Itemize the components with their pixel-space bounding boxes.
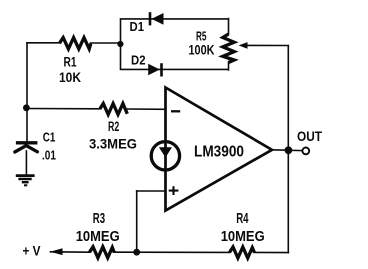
wire C1 lead [25,151,27,175]
svg-text:10MEG: 10MEG [76,229,120,245]
wire opamp output [272,149,302,152]
resistor R4 [230,247,255,258]
resistor R1 [60,38,91,49]
svg-text:.01: .01 [42,147,56,162]
ground [16,176,35,186]
svg-text:10MEG: 10MEG [221,229,265,245]
svg-text:R4: R4 [236,211,248,227]
potentiometer R5 wiper arrow [239,42,248,49]
OUT terminal [302,148,309,155]
wire R5 wiper horizontal [245,44,288,46]
capacitor C1 [15,143,38,152]
resistor R3 [90,247,115,258]
+V arrow [50,248,63,255]
potentiometer R5 vertical element [223,34,234,63]
current source symbol inside op-amp [151,142,179,170]
svg-text:D2: D2 [131,53,146,68]
svg-text:+ V: + V [23,243,41,258]
resistor R2 [100,104,128,115]
wire right vertical [287,46,289,253]
svg-text:100K: 100K [189,43,215,58]
diode D1 [150,12,164,25]
wire plus input vertical [136,191,138,252]
wire plus input horizontal [137,190,166,192]
svg-text:R2: R2 [108,119,119,134]
op-amp minus input sign [171,110,180,112]
op-amp U1 triangle [166,88,273,211]
node junction left input [23,104,30,111]
wire diode box [121,19,229,70]
svg-text:R3: R3 [93,211,105,227]
wire bottom rail [51,251,289,254]
wire top rail right segment [91,42,121,44]
diode D2 [148,63,161,76]
wire left vertical [26,43,28,141]
wire R2 input line [27,108,166,111]
svg-text:3.3MEG: 3.3MEG [89,136,137,151]
svg-text:10K: 10K [59,70,81,85]
svg-text:R1: R1 [64,54,77,69]
op-amp plus input sign [169,186,179,195]
node junction R1/D-box [117,41,123,47]
node junction bottom rail [133,249,140,256]
wire top rail left segment [27,42,60,44]
svg-text:D1: D1 [130,19,145,34]
svg-text:C1: C1 [43,130,56,145]
svg-text:LM3900: LM3900 [194,143,244,160]
svg-text:R5: R5 [196,28,207,43]
node junction output [285,146,293,154]
svg-text:OUT: OUT [297,129,323,144]
